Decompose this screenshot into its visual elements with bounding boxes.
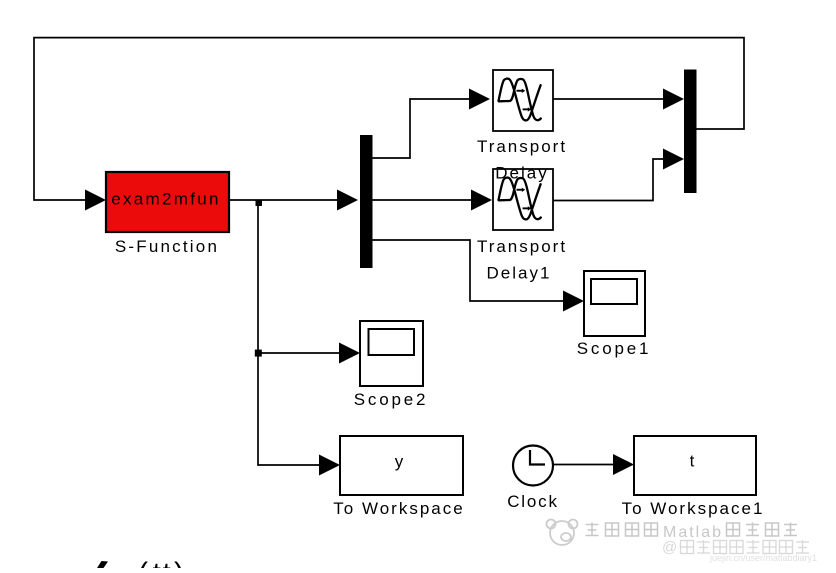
svg-text:juejin.cn/user/matlabdiary1: juejin.cn/user/matlabdiary1 — [709, 553, 817, 563]
svg-text:Transport: Transport — [477, 237, 567, 256]
block Scope2 — [360, 321, 423, 386]
arrowhead into To Workspace — [319, 455, 340, 476]
label Transport Delay — [477, 137, 567, 183]
arrowhead into Demux — [337, 190, 358, 211]
wire Transport Delay1 output to Mux — [553, 159, 665, 201]
Demux bar — [360, 135, 373, 268]
block Clock — [513, 446, 553, 486]
block To Workspace (y) — [340, 436, 463, 495]
arrowhead into Scope1 — [563, 291, 584, 312]
block Transport Delay1 — [493, 169, 553, 230]
svg-text:To Workspace1: To Workspace1 — [622, 499, 765, 518]
svg-text:To Workspace: To Workspace — [333, 499, 464, 518]
svg-text:S-Function: S-Function — [115, 237, 219, 256]
label Transport Delay1 — [477, 237, 567, 283]
block Scope1 — [584, 271, 645, 336]
svg-text:Transport: Transport — [477, 137, 567, 156]
arrowhead into Transport Delay1 — [471, 190, 492, 211]
wire Demux out1 to Transport Delay — [372, 99, 471, 158]
svg-text:t: t — [153, 557, 162, 568]
watermark text sub (@稀土掘金技术社区) — [681, 540, 810, 554]
svg-text:(: ( — [138, 557, 148, 568]
junction J1 — [256, 200, 263, 207]
arrowhead into S-Function — [85, 190, 106, 211]
equation fragment bottom-left — [97, 557, 184, 573]
block Transport Delay — [493, 70, 553, 131]
wire S-Function output to Demux — [229, 199, 340, 201]
svg-text:Clock: Clock — [507, 492, 559, 511]
wire Demux out2 to Transport Delay1 — [372, 199, 473, 201]
svg-text:t: t — [690, 452, 695, 471]
wire Clock output to To Workspace1 — [553, 464, 615, 466]
arrowhead into To Workspace1 — [613, 454, 634, 475]
arrowhead into Mux in2 — [663, 149, 684, 170]
watermark text main (工程师的Matlab学习日志) — [586, 523, 798, 537]
wire Transport Delay output to Mux — [553, 98, 665, 100]
svg-text:Delay: Delay — [495, 164, 548, 183]
wire branch to Scope2 — [258, 352, 341, 354]
svg-text:exam2mfun: exam2mfun — [111, 190, 221, 209]
svg-text:y: y — [395, 452, 404, 471]
svg-text:Scope1: Scope1 — [577, 339, 651, 358]
svg-text:@: @ — [662, 539, 677, 556]
arrowhead into Transport Delay — [469, 89, 490, 110]
svg-text:t: t — [163, 557, 172, 568]
svg-text:Delay1: Delay1 — [487, 264, 552, 283]
block To Workspace1 (t) — [634, 436, 756, 495]
block S-Function (exam2mfun) — [106, 172, 229, 232]
wire branch down — [258, 202, 321, 465]
Mux bar — [684, 70, 697, 194]
arrowhead into Mux in1 — [663, 89, 684, 110]
svg-text:): ) — [174, 557, 184, 568]
watermark icon — [547, 520, 578, 546]
svg-text:Scope2: Scope2 — [354, 390, 428, 409]
junction J2 — [255, 350, 262, 357]
wire feedback top — [34, 38, 744, 200]
wire Demux out3 to Scope1 — [372, 240, 565, 301]
arrowhead into Scope2 — [339, 343, 360, 364]
